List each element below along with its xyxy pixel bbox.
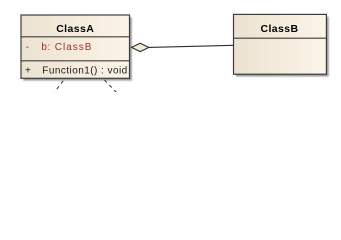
svg-text:ClassB: ClassB — [55, 42, 93, 53]
dashed dependency stub left — [54, 81, 63, 93]
class ClassB body — [234, 14, 327, 74]
ClassA attribute/operation separator — [21, 60, 130, 62]
svg-text:b:: b: — [41, 42, 50, 53]
aggregation link line ClassA to ClassB — [149, 45, 234, 47]
svg-text:ClassA: ClassA — [56, 23, 94, 35]
ClassA title separator — [21, 36, 130, 38]
svg-text:Function1() : void: Function1() : void — [42, 65, 127, 76]
ClassB title separator — [234, 37, 327, 39]
aggregation diamond at ClassA — [132, 43, 149, 51]
dashed dependency stub right — [105, 80, 117, 93]
svg-text:-: - — [26, 42, 30, 53]
class ClassB shadow — [236, 17, 329, 77]
svg-text:+: + — [25, 65, 31, 76]
class ClassA body — [21, 15, 130, 78]
class ClassA shadow — [23, 17, 132, 80]
svg-text:ClassB: ClassB — [260, 23, 298, 35]
